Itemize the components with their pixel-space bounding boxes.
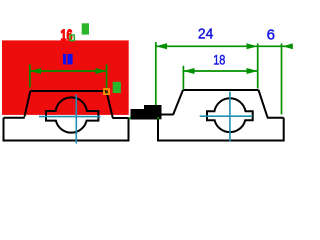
left part: crosshair vertical (cyan centerline): [75, 95, 77, 144]
right part: boss circle with side tabs: [207, 98, 253, 132]
dim 18 right: left arrowhead: [183, 68, 194, 74]
dim 24: left arrowhead: [156, 43, 167, 49]
grip: green hollow square on text: [70, 35, 74, 41]
left part: left slope: [25, 91, 31, 117]
left dimension text "18" (blue blocks): [63, 54, 66, 65]
left dimension: extension line right: [106, 64, 108, 88]
dim 18 right: extension line B: [182, 66, 184, 90]
dim 24: right arrowhead: [247, 43, 258, 49]
green dot inside osnap marker: [106, 91, 108, 93]
cursor blob: lower black rectangle: [131, 109, 157, 120]
green dot on base corner right: [157, 117, 159, 119]
left part: boss circle with side tabs: [46, 97, 98, 132]
right part: crosshair horizontal (cyan centerline): [200, 115, 253, 117]
dim 6: extension line D: [281, 44, 283, 115]
svg-text:16: 16: [61, 28, 73, 45]
cursor blob: upper black rectangle: [144, 105, 162, 119]
right part: left shelf: [158, 114, 174, 116]
grip: green filled rectangle at part corner: [113, 82, 121, 93]
svg-text:24: 24: [198, 26, 213, 43]
left dimension: dimension line: [30, 70, 107, 72]
svg-text:18: 18: [213, 52, 225, 68]
right part: right shelf: [267, 117, 284, 119]
left part: right shelf: [112, 117, 128, 119]
dim 24: extension line A: [155, 42, 157, 118]
left part: base outline: [4, 118, 129, 141]
left part: right slope: [107, 92, 113, 119]
dim 24/6: extension line C: [257, 44, 259, 89]
dim 18 right: right arrowhead: [247, 68, 258, 74]
right part: left slope: [173, 90, 183, 115]
osnap marker: orange hollow square: [104, 89, 109, 94]
left dimension: extension line left: [29, 64, 31, 87]
left dimension: left arrowhead: [30, 68, 41, 74]
svg-text:6: 6: [267, 27, 275, 44]
right part: top edge: [183, 89, 259, 91]
right part: crosshair vertical (cyan centerline): [229, 92, 231, 142]
right part: base outline: [158, 115, 284, 141]
dim 18 right: dimension line: [183, 70, 257, 72]
left part: crosshair horizontal (cyan centerline): [39, 116, 101, 118]
green dot on base corner left: [129, 117, 131, 119]
right part: right slope: [259, 90, 268, 117]
left part: top edge: [30, 90, 106, 92]
red selection overlay rectangle: [2, 40, 129, 115]
dim 6: outside arrowhead right: [283, 43, 293, 49]
grip: green filled rectangle top: [82, 23, 89, 34]
left part: left shelf: [4, 117, 25, 119]
top dimension line (24 and 6): [156, 45, 292, 47]
left dimension: right arrowhead: [96, 68, 107, 74]
